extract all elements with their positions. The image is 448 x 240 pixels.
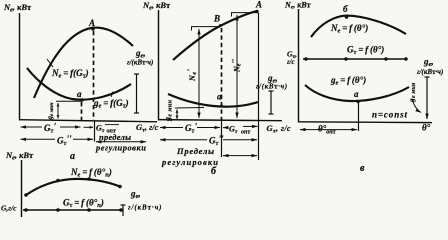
panel b: ge min leader bbox=[175, 107, 204, 110]
svg-text:Ne = f (θ°): Ne = f (θ°) bbox=[330, 23, 368, 35]
svg-text:б: б bbox=[343, 4, 348, 14]
panel v: GT line dots bbox=[304, 57, 307, 60]
svg-text:θ°опт: θ°опт bbox=[318, 124, 336, 136]
panel b: point A dot bbox=[255, 10, 258, 13]
svg-text:n=const: n=const bbox=[372, 110, 407, 120]
panel b: right ge scale bar bbox=[269, 91, 274, 114]
panel a: ge curve bbox=[27, 68, 131, 100]
panel b: point a dot bbox=[220, 105, 223, 108]
svg-text:Gт': Gт' bbox=[44, 122, 56, 135]
panel g: GT horizontal line bbox=[23, 209, 122, 211]
panel v: theta opt arrow bbox=[300, 129, 357, 131]
panel a: point a dot bbox=[80, 98, 83, 101]
panel g: GT line dots bbox=[24, 208, 28, 212]
panel b: y-axis bbox=[158, 10, 160, 121]
panel a: tick line below axis at optimum bbox=[94, 121, 96, 142]
panel a: dashed line under point a bbox=[81, 102, 83, 120]
svg-text:a: a bbox=[77, 89, 82, 99]
svg-text:Gт'': Gт'' bbox=[57, 134, 72, 147]
svg-text:Ne, кВт: Ne, кВт bbox=[5, 150, 34, 161]
svg-text:пределы: пределы bbox=[99, 132, 131, 142]
panel a: leader to Ne label bbox=[47, 59, 53, 67]
svg-text:Ne, кВт: Ne, кВт bbox=[284, 1, 311, 11]
svg-text:B: B bbox=[213, 14, 220, 24]
panel a: x-axis bbox=[19, 120, 157, 122]
panel v: point a dot bbox=[356, 100, 359, 103]
panel a: Ne curve bbox=[34, 28, 133, 98]
svg-text:ge = f (θ°): ge = f (θ°) bbox=[330, 75, 366, 87]
svg-text:Ne': Ne' bbox=[186, 68, 198, 82]
panel v: GT horizontal line bbox=[303, 58, 407, 60]
svg-text:Ne, кВт: Ne, кВт bbox=[142, 0, 171, 11]
panel b: GT' dimension arrow bbox=[160, 127, 220, 129]
panel a: GT'' dimension arrow bbox=[21, 138, 94, 140]
panel g: Ne curve dots bbox=[24, 193, 28, 197]
svg-text:Ne'': Ne'' bbox=[231, 58, 243, 73]
panel v: y-axis bbox=[298, 9, 300, 123]
panel b: vertical extension below axis at A bbox=[258, 120, 260, 160]
svg-text:г/(кВт·ч): г/(кВт·ч) bbox=[127, 59, 153, 67]
panel a: predely regulirovki arrow bbox=[96, 141, 146, 143]
panel a: ge min arrow bbox=[57, 103, 59, 119]
svg-text:регулировки: регулировки bbox=[161, 157, 218, 167]
panel a: leader to ge label bbox=[111, 92, 113, 98]
panel v: apex dot bbox=[345, 15, 349, 19]
panel v: Ne curve bbox=[311, 16, 406, 37]
panel b: B level line bbox=[191, 27, 221, 31]
svg-text:a: a bbox=[217, 92, 222, 102]
panel b: GT opt dimension arrow bbox=[223, 126, 258, 127]
svg-text:Gт, г/с: Gт, г/с bbox=[136, 122, 159, 134]
panel g: Ne curve bbox=[26, 179, 120, 195]
svg-text:θ°: θ° bbox=[422, 123, 431, 133]
svg-text:Пределы: Пределы bbox=[176, 146, 214, 156]
panel b: dashed line under B bbox=[221, 28, 223, 120]
panel v: vertical line under point a bbox=[358, 103, 360, 131]
svg-text:A: A bbox=[255, 0, 262, 10]
svg-text:Gт': Gт' bbox=[185, 122, 197, 135]
panel a: point A dot bbox=[91, 27, 94, 30]
svg-text:Gт = f (θ°n): Gт = f (θ°n) bbox=[63, 198, 104, 210]
svg-text:а: а bbox=[70, 151, 75, 162]
panel b: ge min arrow bbox=[176, 110, 178, 120]
panel b: ge curve bbox=[168, 94, 258, 107]
panel v: right ge scale bar bbox=[425, 77, 430, 119]
svg-text:регулировки: регулировки bbox=[95, 143, 146, 153]
panel v: ge min leader arrow bbox=[412, 99, 421, 113]
svg-text:Gт = f (θ°): Gт = f (θ°) bbox=[347, 45, 384, 57]
panel a: GT opt overline bbox=[105, 124, 119, 126]
panel a: dashed line under point A bbox=[93, 31, 95, 120]
svg-text:A: A bbox=[88, 18, 95, 28]
panel b: A level line bbox=[231, 13, 258, 17]
panel b: GT'' dimension arrow bbox=[160, 139, 257, 141]
panel b: Ne curve bbox=[173, 11, 257, 60]
svg-text:ge мин: ge мин bbox=[163, 99, 173, 122]
panel g: right ge scale tick bbox=[121, 205, 126, 216]
panel b: vertical extension below axis at B bbox=[221, 120, 223, 157]
svg-text:ge,: ge, bbox=[130, 189, 141, 201]
svg-text:G,г/с: G,г/с bbox=[1, 204, 17, 213]
svg-text:б: б bbox=[211, 166, 217, 177]
svg-text:ge,: ge, bbox=[423, 57, 434, 69]
svg-text:г/(кВт·ч): г/(кВт·ч) bbox=[256, 83, 288, 91]
panel v: x-axis bbox=[298, 121, 432, 124]
svg-text:ge = f(Gт): ge = f(Gт) bbox=[93, 98, 129, 110]
panel v: ge curve bbox=[305, 85, 409, 101]
panel g: y-axis bbox=[21, 160, 23, 217]
svg-text:г/(кВт·ч): г/(кВт·ч) bbox=[128, 204, 162, 212]
svg-text:ge мин: ge мин bbox=[46, 103, 55, 121]
svg-text:Ne, кВт: Ne, кВт bbox=[3, 2, 32, 13]
svg-text:a: a bbox=[354, 89, 359, 99]
svg-text:в: в bbox=[360, 163, 365, 174]
svg-text:г/(кВт·ч): г/(кВт·ч) bbox=[417, 68, 443, 76]
svg-text:г/с: г/с bbox=[287, 58, 295, 66]
svg-text:ge мин: ge мин bbox=[407, 82, 417, 103]
panel a: ge min leader bbox=[56, 100, 82, 102]
svg-text:Ne = f(Gт): Ne = f(Gт) bbox=[51, 68, 89, 80]
panel b: Ne'' arrow bbox=[236, 15, 238, 118]
panel b: solid line under A bbox=[258, 13, 260, 120]
panel b: x-axis bbox=[158, 120, 282, 121]
panel b: Ne' arrow bbox=[198, 29, 200, 118]
panel a: y-axis bbox=[19, 13, 21, 121]
svg-text:Ne = f (θ°n): Ne = f (θ°n) bbox=[70, 167, 112, 179]
panel b: predely regulirovki arrow bbox=[223, 155, 257, 157]
panel a: right ge scale bar bbox=[134, 74, 139, 113]
svg-text:Gт, г/с: Gт, г/с bbox=[267, 123, 292, 135]
panel a: GT' dimension arrow bbox=[21, 126, 81, 128]
panel b: point B dot bbox=[219, 24, 222, 27]
panel a: GT opt gap arrow bbox=[84, 126, 94, 128]
